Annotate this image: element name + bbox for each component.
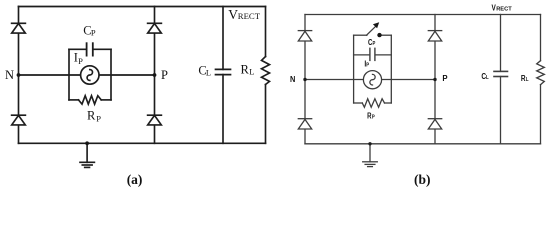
wire bottom rail (b) bbox=[305, 143, 541, 145]
switch contact dot (b) bbox=[377, 33, 381, 37]
resistor RL (a) bbox=[262, 7, 270, 144]
label CP (a) bbox=[83, 24, 96, 38]
current source IP (b) bbox=[363, 71, 381, 89]
svg-text:V: V bbox=[228, 7, 238, 22]
label VRECT (a) bbox=[228, 7, 260, 22]
current source IP (a) bbox=[81, 66, 99, 84]
svg-text:N: N bbox=[5, 68, 14, 82]
piezo model box (b) left edge bbox=[353, 35, 355, 103]
piezo model box (a) right edge bbox=[110, 49, 112, 100]
diode D1b bbox=[298, 31, 311, 41]
ground (a) bbox=[80, 143, 94, 167]
svg-text:P: P bbox=[78, 56, 83, 66]
svg-text:P: P bbox=[161, 68, 168, 82]
diode D3b bbox=[298, 119, 311, 129]
svg-text:L: L bbox=[249, 67, 254, 77]
label CL (b) bbox=[481, 71, 488, 81]
wire mid N-P (a) bbox=[19, 74, 155, 76]
wire P branch (a) bbox=[154, 7, 156, 144]
diode D3 bbox=[12, 115, 26, 125]
node N (a) bbox=[17, 73, 21, 77]
diode D2 bbox=[148, 23, 162, 33]
piezo model box (b) right edge bbox=[390, 35, 392, 103]
capacitor CP (b) bbox=[354, 48, 392, 60]
svg-text:(a): (a) bbox=[127, 172, 143, 187]
label RP (a) bbox=[87, 109, 101, 124]
resistor RP (a) bbox=[69, 96, 111, 104]
wire CL branch (b) bbox=[500, 15, 502, 144]
label IP (b) bbox=[364, 59, 369, 69]
wire left branch (b) bbox=[304, 15, 306, 144]
wire left branch (a) bbox=[18, 7, 20, 144]
label CL (a) bbox=[198, 63, 211, 77]
ground (b) bbox=[363, 144, 378, 167]
svg-text:N: N bbox=[290, 74, 296, 83]
wire top rail (b) bbox=[305, 14, 541, 16]
piezo model box (a) left edge bbox=[68, 49, 70, 100]
node P (b) bbox=[433, 78, 436, 81]
node P (a) bbox=[153, 73, 157, 77]
wire mid N-P (b) bbox=[305, 79, 435, 81]
node N (b) bbox=[303, 78, 306, 81]
svg-text:R: R bbox=[241, 63, 250, 77]
svg-text:P: P bbox=[442, 74, 448, 83]
wire CL branch (a) bbox=[222, 7, 224, 144]
svg-text:P: P bbox=[372, 114, 375, 121]
svg-text:(b): (b) bbox=[414, 172, 431, 187]
svg-text:P: P bbox=[366, 62, 369, 69]
wire P branch (b) bbox=[434, 15, 436, 144]
svg-text:P: P bbox=[91, 27, 96, 37]
diode D4 bbox=[148, 115, 162, 125]
resistor RL (b) bbox=[537, 15, 545, 144]
label RP (b) bbox=[367, 111, 375, 121]
capacitor CL (b) bbox=[494, 71, 508, 76]
diode D4b bbox=[428, 119, 441, 129]
label RL (b) bbox=[521, 73, 529, 83]
svg-text:RECT: RECT bbox=[238, 11, 261, 21]
svg-text:RECT: RECT bbox=[496, 7, 512, 13]
wire top rail (a) bbox=[19, 6, 266, 8]
svg-text:P: P bbox=[373, 40, 376, 47]
node ground junction (a) bbox=[85, 141, 89, 145]
switch S1 (b) bbox=[354, 22, 392, 35]
svg-text:L: L bbox=[206, 67, 211, 77]
svg-text:R: R bbox=[87, 109, 96, 123]
capacitor CP (a) bbox=[69, 43, 111, 55]
label CP (b) bbox=[368, 37, 376, 47]
label RL (a) bbox=[241, 63, 255, 77]
svg-text:L: L bbox=[526, 76, 529, 83]
label VRECT (b) bbox=[492, 3, 513, 13]
label IP (a) bbox=[74, 51, 83, 67]
resistor RP (b) bbox=[354, 99, 392, 108]
capacitor CL (a) bbox=[216, 69, 231, 74]
node ground junction (b) bbox=[368, 142, 371, 145]
wire bottom rail (a) bbox=[19, 142, 266, 144]
svg-text:L: L bbox=[486, 74, 489, 81]
diode D2b bbox=[428, 31, 441, 41]
diode D1 bbox=[12, 23, 26, 33]
svg-text:P: P bbox=[96, 113, 101, 123]
